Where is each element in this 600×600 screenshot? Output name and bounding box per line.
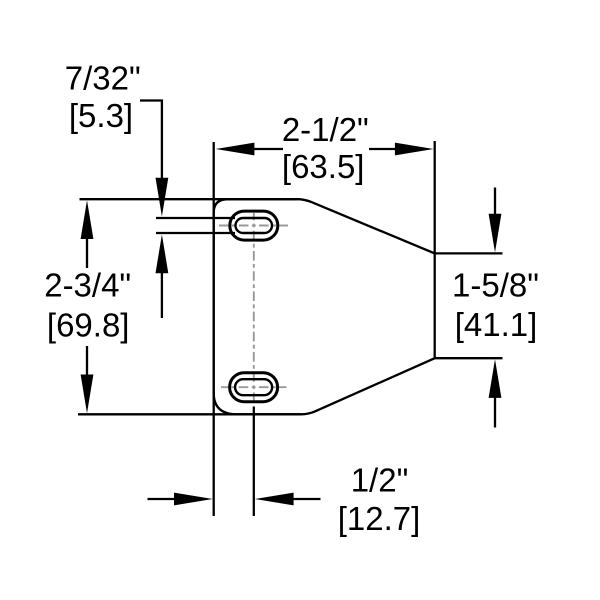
extension line: bottom right horizontal (1-5/8 dim) [435,357,503,359]
extension line: top edge extended left (2-3/4 dim) [80,198,298,200]
extension line: left edge extended up and down (2-1/2 and 1/2 dims) [213,142,215,516]
centerline: vertical slot axis [253,213,255,402]
dimension 1/2 left stem [148,498,177,500]
dimension 2-1/2 line right segment [369,148,397,150]
dimension 2-3/4 lower arrowhead (down) [81,375,94,414]
svg-text:1/2": 1/2" [351,462,409,499]
svg-text:[12.7]: [12.7] [338,500,421,537]
lower slot inner obround [235,379,272,395]
dimension 1/2 right arrowhead (left) [255,493,294,506]
dimension 7/32 leader elbow [140,101,162,181]
extension line: slot lower tangent extended left (7/32 dim) [156,232,235,234]
dimension 2-3/4 upper arrowhead (up) [81,200,94,239]
upper slot outer obround [230,211,278,240]
svg-text:1-5/8": 1-5/8" [452,267,539,304]
dimension 2-1/2 left arrowhead [216,143,255,156]
dimension 1-5/8 lower arrowhead (up) [489,359,502,398]
dimension 1/2 right stem [292,498,321,500]
centerline: upper slot horizontal axis [219,225,288,227]
svg-text:[69.8]: [69.8] [47,307,130,344]
centerline: lower slot horizontal axis [221,386,287,388]
part outline: bracket body [214,199,435,414]
dimension 1/2 left arrowhead (right) [174,493,213,506]
extension line: bottom edge extended left (2-3/4 dim) [78,413,301,415]
dimension 2-1/2 line left segment [252,148,283,150]
svg-text:[5.3]: [5.3] [69,97,133,134]
lower slot outer obround [230,373,278,402]
dimension 1-5/8 lower stem [494,396,496,428]
dimension 7/32 upper arrowhead (down) [156,178,169,217]
dimension 1-5/8 upper stem [494,188,496,217]
dimension 1-5/8 upper arrowhead (down) [489,214,502,253]
upper slot inner obround [236,218,273,233]
extension line: slot centerline extended down (1/2 dim) [253,407,255,517]
dimension 2-1/2 right arrowhead [395,143,434,156]
extension line: right edge extended up (2-1/2 dim) [434,141,436,253]
svg-text:[41.1]: [41.1] [455,306,538,343]
svg-text:7/32": 7/32" [65,60,141,97]
svg-text:2-1/2": 2-1/2" [282,111,369,148]
extension line: top right horizontal (1-5/8 dim) [435,252,503,254]
svg-text:[63.5]: [63.5] [282,148,365,185]
extension line: slot upper tangent extended left (7/32 dim) [156,217,235,219]
dimension 2-3/4 lower stem [86,346,88,377]
dimension 2-3/4 upper stem [86,237,88,268]
dimension 7/32 lower arrowhead (up) [156,235,169,274]
svg-text:2-3/4": 2-3/4" [44,267,131,304]
dimension 7/32 lower stem [161,271,163,318]
